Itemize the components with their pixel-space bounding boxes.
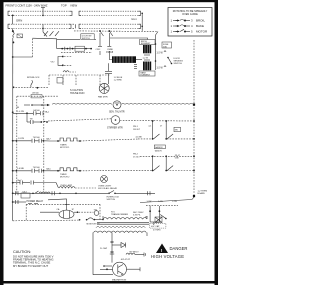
magnetron drop wire <box>110 236 114 263</box>
svg-text:1-2W: 1-2W <box>172 201 177 203</box>
svg-text:INTERLOCK: INTERLOCK <box>27 77 40 79</box>
switch gang linkage marks <box>44 31 59 36</box>
magnetron tube V1 <box>100 259 140 281</box>
border frame left <box>0 0 4 285</box>
bake element bottom label <box>139 71 155 77</box>
legend box <box>168 8 212 37</box>
svg-text:1-3 PB: 1-3 PB <box>18 138 25 140</box>
bus bar L1 <box>8 11 141 21</box>
svg-text:CAUTION:: CAUTION: <box>13 250 31 254</box>
svg-text:MOTOR 2: MOTOR 2 <box>60 177 70 179</box>
wire rung1 to stirrer motor <box>48 119 111 121</box>
svg-text:CA-7: CA-7 <box>17 179 23 182</box>
wire stub 1-2W lower <box>157 65 167 69</box>
svg-text:SEN. TAL MTR: SEN. TAL MTR <box>109 111 125 114</box>
choke coil L1 <box>126 253 146 257</box>
terminal mark bus N drop <box>42 24 47 36</box>
bake element hatched block <box>143 62 151 71</box>
svg-text:PB-2: PB-2 <box>133 154 139 156</box>
svg-text:1-2W: 1-2W <box>158 201 163 203</box>
legend row 2 switch BAKE <box>171 24 205 28</box>
fuse F1 <box>12 28 23 43</box>
terminal block label <box>162 42 172 48</box>
switch S2 drop <box>107 30 114 51</box>
terminal box VIO2 <box>57 78 63 84</box>
HV capacitor C3 <box>100 242 114 252</box>
selector switch cluster 2 <box>133 145 194 171</box>
svg-text:FAN MTR: FAN MTR <box>98 96 108 99</box>
svg-text:MOTOR 1: MOTOR 1 <box>60 147 70 149</box>
relay coil feed wire <box>48 199 75 211</box>
svg-text:MOTOR: MOTOR <box>196 30 208 34</box>
HV cap label box <box>150 223 166 231</box>
switch door sensing <box>167 57 172 65</box>
svg-text:TM 500: TM 500 <box>33 167 41 169</box>
svg-text:1-2 W: 1-2 W <box>143 58 148 60</box>
svg-text:SWITCH: SWITCH <box>174 63 183 65</box>
label door sensing switch <box>174 58 184 65</box>
motor M3 circle <box>107 116 123 130</box>
caution text block <box>13 250 54 268</box>
dashed feeder below bus N <box>74 30 158 33</box>
danger triangle <box>156 244 168 254</box>
border frame right <box>215 0 219 285</box>
svg-text:FRONT-2 CONT. 115V - 240V 60HZ: FRONT-2 CONT. 115V - 240V 60HZ <box>6 4 48 8</box>
svg-text:402-4T-2P: 402-4T-2P <box>121 259 131 261</box>
svg-text:OVEN GUIDE: OVEN GUIDE <box>182 13 198 16</box>
svg-text:CWC8: CWC8 <box>106 51 114 54</box>
node GRN drop <box>12 15 22 25</box>
svg-text:GA-1: GA-1 <box>131 18 137 21</box>
bus end connector vertical <box>141 13 143 31</box>
svg-text:1-2 WHD: 1-2 WHD <box>114 80 123 82</box>
svg-text:BROIL: BROIL <box>196 19 205 23</box>
svg-text:CWC: CWC <box>96 49 101 51</box>
rung 2 timer <box>13 137 52 143</box>
svg-text:1-2W: 1-2W <box>147 201 152 203</box>
legend row 1 switch BROIL <box>171 19 206 23</box>
svg-text:4-6 BK: 4-6 BK <box>136 136 143 138</box>
svg-text:SWITCH: SWITCH <box>82 38 90 40</box>
connector bracket VIO <box>51 56 73 67</box>
rung 3 dashed to cluster2 <box>80 170 152 172</box>
rung 1 switch <box>13 109 50 115</box>
rung 3 <box>13 167 52 173</box>
bottom wire to cap circuit <box>140 197 194 206</box>
svg-text:H.V. CAP: H.V. CAP <box>151 225 160 228</box>
rung 5 monitor line <box>13 190 108 198</box>
wire feeder to rail A <box>156 32 159 36</box>
svg-text:GRN: GRN <box>16 19 22 23</box>
svg-text:POWER RELAY: POWER RELAY <box>27 200 44 203</box>
right rail A <box>155 35 157 70</box>
svg-text:0.9 MFD: 0.9 MFD <box>153 229 161 231</box>
svg-text:GA-MOV: GA-MOV <box>155 146 163 149</box>
secondary left return wire <box>93 236 113 275</box>
svg-text:1T-3LT: 1T-3LT <box>133 157 140 159</box>
svg-text:HIGH VOLTAGE: HIGH VOLTAGE <box>151 254 184 259</box>
fan motor M1 <box>98 83 109 98</box>
svg-text:SW OF ALL RELAY: SW OF ALL RELAY <box>98 187 118 190</box>
svg-text:4-5: 4-5 <box>148 125 151 127</box>
power relay dashed enclosure <box>26 204 100 220</box>
border frame bottom <box>0 281 218 284</box>
svg-text:ELEMENT: ELEMENT <box>141 43 151 45</box>
svg-text:INTERLOCK: INTERLOCK <box>107 197 120 199</box>
wire switch drop to element E1 <box>109 51 112 60</box>
rung 4 oven lamp <box>13 179 96 188</box>
wire element E1 to assembly <box>136 59 142 61</box>
svg-text:MY BOARD TO SHORT OUT: MY BOARD TO SHORT OUT <box>13 264 49 268</box>
svg-text:TM: TM <box>30 119 33 121</box>
svg-text:VIO: VIO <box>51 62 55 64</box>
switch S1 drop <box>96 30 104 51</box>
relay contact wire <box>40 210 99 216</box>
svg-text:BAKE: BAKE <box>196 24 204 28</box>
rung 1 lower branch <box>27 113 48 124</box>
svg-text:VIEW: VIEW <box>70 4 78 8</box>
assembly middle terminals <box>143 55 151 60</box>
interlock switch on rung5 <box>107 191 156 202</box>
monitor contact row <box>79 218 104 226</box>
svg-text:ELEMENT: ELEMENT <box>141 75 151 77</box>
svg-text:DANGER: DANGER <box>170 246 188 251</box>
bottom dashed return wire <box>13 219 79 222</box>
svg-text:2L CAP: 2L CAP <box>100 247 108 250</box>
interlock coil mark <box>63 71 76 72</box>
fan motor feed wire <box>105 63 123 84</box>
HV capacitor circuit <box>145 206 167 225</box>
caution note small <box>70 89 85 95</box>
switch row 1 wire <box>33 38 57 48</box>
svg-text:1-6 MB: 1-6 MB <box>17 168 24 170</box>
wire interlock rung <box>13 86 48 88</box>
svg-text:1-2 W: 1-2 W <box>157 52 164 54</box>
svg-text:HOUSE RUN: HOUSE RUN <box>70 92 85 95</box>
svg-text:6 BK: 6 BK <box>175 158 180 160</box>
svg-text:PB-1: PB-1 <box>133 126 139 128</box>
relay box K1 label <box>81 34 94 40</box>
svg-text:1-2 W: 1-2 W <box>157 67 164 69</box>
legend row 3 switch MOTOR <box>171 29 208 33</box>
rung 2 dashed to cluster <box>80 139 138 141</box>
switch door interlock <box>27 77 40 87</box>
terminal text right <box>198 191 208 196</box>
timer motor waveform symbol 1 <box>50 138 81 149</box>
wire rung motor M3 to rail B <box>120 120 194 123</box>
wire stub 1-2W upper <box>157 50 167 54</box>
svg-text:MAGNETRON: MAGNETRON <box>112 278 127 281</box>
svg-text:3.3V FIL: 3.3V FIL <box>133 214 141 216</box>
svg-text:TA-MOV: TA-MOV <box>155 150 163 153</box>
dashed rail mid <box>43 96 45 192</box>
bus bar N <box>8 24 141 28</box>
left rail main <box>12 56 14 203</box>
wire feeder to switch row1 <box>12 38 14 221</box>
dashed junction box <box>49 75 110 86</box>
HV transformer T1 <box>93 212 149 236</box>
svg-text:OVEN LAMP: OVEN LAMP <box>60 184 73 187</box>
terminal mark above bus L1 <box>41 8 45 17</box>
svg-text:1R-3LT: 1R-3LT <box>133 129 141 131</box>
right rail B dashed <box>193 40 195 197</box>
diode D1 rectifier <box>112 243 139 254</box>
dashed rail inner <box>16 96 18 193</box>
broil element hatched block <box>143 45 151 53</box>
svg-text:TRANSFORMER: TRANSFORMER <box>111 213 128 216</box>
thermostat box TH1 <box>65 46 85 51</box>
oven lamp circle <box>98 176 118 191</box>
switch row 2 wire <box>57 48 92 53</box>
svg-text:SWITCH: SWITCH <box>107 199 116 201</box>
svg-text:BOARD: BOARD <box>198 192 206 195</box>
heating element E1 hatched block <box>106 51 137 69</box>
border frame top <box>0 0 218 2</box>
selector switch cluster 1 <box>133 120 194 140</box>
svg-text:1-4 PB: 1-4 PB <box>17 111 24 113</box>
power relay line <box>13 200 44 204</box>
svg-text:STIRRER MTR: STIRRER MTR <box>107 128 123 130</box>
dashed rung small <box>17 93 58 98</box>
timer motor waveform symbol 2 <box>50 168 81 179</box>
svg-text:LM 500: LM 500 <box>32 93 40 95</box>
danger text <box>151 246 187 259</box>
svg-text:TM 500: TM 500 <box>33 137 41 139</box>
svg-text:TOP: TOP <box>61 4 67 8</box>
svg-text:CA 500: CA 500 <box>33 109 40 112</box>
motor M2 small circle <box>109 101 125 114</box>
relay coil ellipse <box>59 210 74 218</box>
heater element wavy line <box>17 103 194 109</box>
svg-text:SW: SW <box>175 130 178 132</box>
broil element assembly top label <box>140 40 156 46</box>
